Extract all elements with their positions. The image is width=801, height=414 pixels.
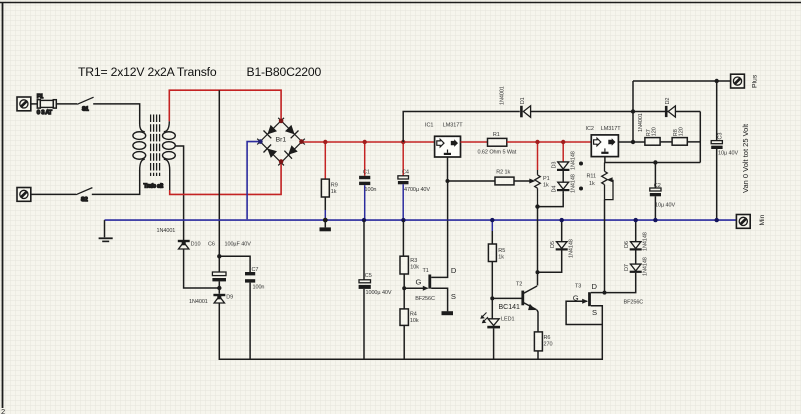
capacitor C3 — [711, 81, 738, 220]
potentiometer R11 — [587, 163, 614, 200]
resistor R9 — [321, 142, 337, 220]
wire X1 to F1 — [31, 103, 38, 105]
svg-text:C4: C4 — [402, 170, 409, 176]
svg-text:LM317T: LM317T — [601, 126, 621, 132]
wire IC2 adj down and right — [605, 157, 700, 163]
node bridge right — [299, 139, 304, 144]
resistor R5 — [488, 220, 505, 319]
svg-text:D9: D9 — [226, 294, 233, 300]
wire C6 node to C7 — [219, 256, 250, 272]
svg-text:1N4148: 1N4148 — [643, 232, 649, 251]
wire divider to T1 gate — [404, 287, 424, 289]
svg-text:D5: D5 — [550, 241, 556, 248]
svg-text:1k: 1k — [331, 189, 337, 195]
svg-text:1N4001: 1N4001 — [500, 86, 506, 105]
svg-text:1N4148: 1N4148 — [571, 174, 577, 193]
transformer TR1 secondary winding — [163, 121, 176, 190]
bridge rectifier Br1 — [257, 118, 305, 166]
ground at blue rail left end — [99, 220, 113, 241]
node D5 T2 collector — [536, 270, 540, 274]
svg-text:4700µ 40V: 4700µ 40V — [404, 187, 430, 193]
terminal X1 — [17, 97, 31, 111]
svg-text:F1: F1 — [37, 94, 43, 100]
svg-text:D7: D7 — [624, 264, 630, 271]
node C1 blue rail — [362, 218, 366, 222]
node D1 D2 junction — [631, 109, 635, 113]
svg-text:100n: 100n — [365, 187, 377, 193]
resistor R6 — [534, 332, 552, 359]
wire R11 down to T3 drain — [604, 200, 606, 293]
svg-text:D2: D2 — [665, 98, 671, 105]
svg-text:S2: S2 — [81, 197, 88, 203]
transistor T2 BC141 — [499, 281, 538, 311]
node D6 blue rail — [634, 218, 638, 222]
svg-text:R9: R9 — [331, 182, 338, 188]
op-amp regulator IC2 LM317T — [586, 126, 622, 157]
wire aux tap from red top edge down to C6 — [218, 90, 220, 256]
svg-text:120: 120 — [679, 127, 685, 136]
svg-text:C2: C2 — [654, 183, 661, 189]
node T2 base tap — [490, 296, 494, 300]
resistor R3 — [400, 220, 419, 274]
svg-text:1k: 1k — [543, 183, 549, 189]
svg-text:IC2: IC2 — [586, 126, 594, 132]
svg-text:BF256C: BF256C — [415, 296, 435, 302]
svg-text:270: 270 — [544, 341, 553, 347]
diode D10 — [157, 228, 201, 249]
svg-text:G: G — [573, 293, 579, 302]
svg-text:D: D — [451, 266, 457, 275]
wire T2 emitter to R6 — [537, 310, 538, 332]
svg-text:T2: T2 — [516, 281, 522, 287]
capacitor C6 — [208, 241, 251, 293]
svg-text:0 3 AT: 0 3 AT — [37, 110, 53, 116]
wire R3 to R4 — [403, 274, 405, 309]
resistor R4 — [400, 309, 419, 359]
transistor T1 BF256C — [415, 181, 457, 311]
node D5 blue rail — [560, 218, 564, 222]
svg-text:Min: Min — [759, 214, 766, 225]
wire red secondary bottom to bridge bottom — [170, 162, 281, 194]
svg-text:LED1: LED1 — [501, 316, 514, 322]
node bridge left — [258, 139, 263, 144]
svg-text:1N4148: 1N4148 — [643, 257, 649, 276]
wire base tap to T2 — [492, 297, 521, 299]
wire D1 to plus vertical — [531, 111, 701, 113]
node C3 top — [715, 79, 719, 83]
diode D2 — [638, 98, 675, 132]
svg-text:T1: T1 — [423, 268, 429, 274]
svg-text:D10: D10 — [191, 241, 201, 247]
wire plus horizontal to terminal — [633, 80, 731, 82]
transistor T3 BF256C — [566, 282, 643, 325]
node C2 blue rail — [653, 218, 657, 222]
node D10/D9 junction — [217, 286, 221, 290]
svg-text:C3: C3 — [718, 133, 724, 140]
svg-text:Br1: Br1 — [276, 136, 287, 143]
svg-text:0.62 Ohm 5 Wat: 0.62 Ohm 5 Wat — [478, 149, 517, 155]
svg-text:1000µ 40V: 1000µ 40V — [366, 290, 392, 296]
node plus branch — [631, 140, 635, 144]
svg-text:R6: R6 — [544, 335, 551, 341]
svg-text:BC141: BC141 — [499, 304, 521, 311]
wire bottom return rail — [219, 303, 602, 359]
stray dot upper — [579, 162, 583, 166]
node gate divider — [402, 286, 406, 290]
svg-text:R4: R4 — [410, 312, 417, 318]
node D3 red rail — [561, 140, 565, 144]
capacitor C1 — [359, 142, 376, 220]
svg-text:G: G — [416, 277, 422, 286]
svg-text:D6: D6 — [624, 241, 630, 248]
resistor R7 — [645, 127, 660, 145]
wire R2 to P1 wiper — [514, 180, 530, 182]
svg-text:1k: 1k — [498, 255, 504, 261]
svg-text:IC1: IC1 — [425, 123, 433, 129]
wire IC2 out to R7 — [618, 141, 645, 143]
node C1 red rail — [363, 140, 367, 144]
svg-text:1N4148: 1N4148 — [571, 151, 577, 170]
svg-text:R1: R1 — [493, 132, 500, 138]
node R5 blue rail — [490, 218, 494, 222]
svg-text:S: S — [592, 308, 597, 317]
svg-text:100n: 100n — [253, 285, 265, 291]
wire P1 bottom down to T2 collector — [537, 207, 539, 286]
svg-text:BF256C: BF256C — [624, 299, 644, 305]
ground under R9 — [320, 220, 331, 231]
svg-text:Van 0 Volt tot 25 Volt: Van 0 Volt tot 25 Volt — [741, 123, 750, 193]
diode D7 — [606, 257, 649, 292]
svg-text:D4: D4 — [552, 186, 558, 193]
svg-text:Trafo alt: Trafo alt — [144, 184, 164, 190]
svg-text:10k: 10k — [410, 318, 419, 324]
svg-text:Plus: Plus — [752, 74, 759, 88]
terminal Min — [736, 214, 766, 228]
wire S2 to transformer — [92, 170, 140, 194]
transformer core — [151, 115, 160, 177]
transformer center tap wire — [175, 146, 184, 240]
svg-text:C1: C1 — [363, 170, 370, 176]
ground under T1 source — [442, 311, 454, 315]
fuse F1 — [37, 94, 56, 116]
svg-text:10µ 40V: 10µ 40V — [655, 203, 675, 209]
op-amp regulator IC1 LM317T — [425, 123, 463, 157]
svg-text:C5: C5 — [365, 273, 372, 279]
wire IC1 out to R1 — [461, 141, 488, 143]
wire blue negative rail — [105, 219, 737, 221]
wire P1 bottom to D4 bottom — [538, 194, 564, 207]
node adj C2 tap — [653, 160, 657, 164]
svg-text:10µ 40V: 10µ 40V — [718, 151, 738, 157]
frame top border — [0, 2, 801, 4]
svg-text:1N4001: 1N4001 — [638, 113, 644, 132]
wire red secondary top to bridge top — [169, 90, 281, 121]
node C4 red rail — [401, 140, 405, 144]
svg-text:D3: D3 — [552, 162, 558, 169]
node P1 red rail — [535, 140, 539, 144]
LED LED1 — [480, 313, 514, 360]
diode D3 — [552, 142, 577, 182]
node adj R2 T1 — [446, 179, 450, 183]
svg-text:LM317T: LM317T — [443, 123, 463, 129]
svg-text:R3: R3 — [410, 258, 417, 264]
svg-text:C6: C6 — [208, 241, 215, 247]
node R9 red rail — [323, 140, 327, 144]
resistor R1 — [478, 132, 517, 156]
diode D6 — [624, 220, 649, 264]
svg-text:S1: S1 — [82, 107, 89, 113]
svg-text:2: 2 — [1, 407, 5, 414]
wire S1 to transformer — [93, 104, 140, 124]
svg-text:1N4001: 1N4001 — [157, 228, 176, 234]
svg-text:TR1= 2x12V 2x2A Transfo: TR1= 2x12V 2x2A Transfo — [78, 65, 217, 79]
capacitor C2 — [650, 163, 676, 221]
svg-text:C7: C7 — [252, 267, 259, 273]
node R9 blue rail — [323, 218, 328, 223]
svg-text:100µF 40V: 100µF 40V — [225, 241, 252, 247]
svg-text:R11: R11 — [587, 173, 596, 179]
wire bridge left to blue rail — [247, 142, 258, 220]
svg-text:D1: D1 — [520, 97, 526, 104]
svg-text:1k: 1k — [589, 181, 595, 187]
switch S1 — [77, 97, 93, 112]
wire IC1 adj down — [447, 157, 449, 181]
diode D1 — [500, 86, 531, 117]
node P1 bottom — [535, 204, 539, 208]
svg-text:120: 120 — [652, 127, 658, 136]
node bridge bottom — [279, 159, 284, 164]
wire R1 to IC2 — [507, 141, 592, 143]
svg-text:R5: R5 — [498, 248, 505, 254]
capacitor C5 — [359, 220, 392, 359]
diode D5 — [538, 220, 575, 272]
svg-text:P1: P1 — [543, 176, 550, 182]
wire R7 to R8 — [660, 141, 672, 143]
capacitor C4 — [398, 142, 431, 220]
transformer TR1 primary winding — [133, 124, 146, 170]
node C3 blue rail — [715, 218, 719, 222]
svg-text:D: D — [592, 282, 598, 291]
wire red positive rail — [304, 141, 435, 143]
node T3 drain R11 — [603, 291, 607, 295]
svg-text:10k: 10k — [410, 264, 419, 270]
frame left border — [2, 3, 4, 409]
terminal Plus — [731, 74, 759, 88]
svg-text:1N4148: 1N4148 — [569, 239, 575, 258]
wire D10 to C6/D9 node — [184, 249, 220, 288]
diode D9 — [189, 294, 233, 305]
svg-text:B1-B80C2200: B1-B80C2200 — [247, 65, 322, 79]
diode D4 — [552, 174, 577, 194]
wire adj to R2 — [448, 180, 496, 182]
wire F1 to S1 — [56, 103, 77, 105]
svg-text:T3: T3 — [575, 284, 581, 290]
terminal X2 — [17, 188, 31, 202]
svg-text:1N4001: 1N4001 — [189, 299, 208, 305]
wire R8 to output corner — [687, 112, 700, 163]
node C4 blue rail — [401, 218, 405, 222]
svg-text:S: S — [451, 292, 456, 301]
stray dot lower — [579, 187, 583, 191]
capacitor C7 — [245, 267, 264, 359]
svg-text:R2 1k: R2 1k — [496, 169, 510, 175]
node C6 top junction — [217, 254, 221, 258]
wire plus vertical — [632, 81, 634, 142]
switch S2 — [76, 188, 92, 204]
wire X2 to S2 — [31, 193, 76, 195]
resistor R8 — [672, 127, 687, 145]
resistor R2 — [495, 169, 514, 185]
potentiometer P1 — [529, 142, 549, 207]
node bridge top — [279, 119, 284, 124]
wire aux D1 branch — [403, 112, 520, 143]
